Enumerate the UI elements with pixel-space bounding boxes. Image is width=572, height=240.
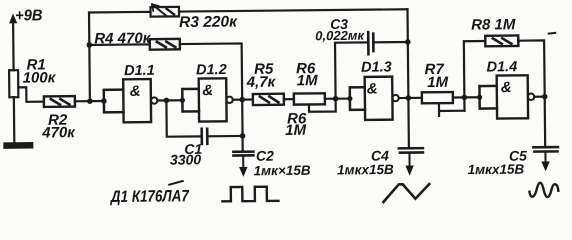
svg-text:&: & xyxy=(130,83,141,100)
wire R6 to D1.3 input xyxy=(325,97,350,99)
resistor R1 xyxy=(9,70,18,97)
node junction D1.1 input xyxy=(101,98,107,104)
node junction main line / feedback vertical xyxy=(87,98,93,104)
waveform square wave xyxy=(222,187,278,202)
node junction D1.2 output xyxy=(239,97,245,103)
resistor R8 xyxy=(485,35,518,46)
svg-text:D1.4: D1.4 xyxy=(487,59,518,75)
wire C5 vertical xyxy=(544,97,547,147)
label accent stroke over A7 xyxy=(169,181,183,185)
node junction R4 branch xyxy=(87,42,93,48)
svg-text:D1.3: D1.3 xyxy=(361,59,392,75)
ground xyxy=(3,142,33,149)
capacitor C4 xyxy=(399,148,423,176)
wire R4 left xyxy=(89,43,149,46)
wire C3 left leg xyxy=(335,42,368,98)
wire R5 to R6 xyxy=(284,98,294,100)
capacitor C5 xyxy=(533,147,558,171)
svg-text:С2: С2 xyxy=(256,148,274,164)
wire feedback vertical from top line down to main line xyxy=(88,12,91,101)
resistor R3 (variable) xyxy=(150,4,179,17)
svg-text:D1.1: D1.1 xyxy=(124,63,155,79)
wire D1.1 output to D1.2 input xyxy=(157,99,182,101)
wire R7 wiper stub xyxy=(438,111,440,116)
wire R7 wiper tap xyxy=(439,103,465,111)
wire C2 vertical xyxy=(241,100,244,151)
svg-text:&: & xyxy=(367,80,378,97)
wire C3 right leg xyxy=(373,41,407,44)
svg-text:R8 1М: R8 1М xyxy=(471,16,516,33)
wire input bracket D1.1 xyxy=(104,90,124,113)
wire R1 bottom to ground xyxy=(13,97,16,142)
waveform sine wave xyxy=(529,182,558,197)
resistor R2 xyxy=(44,96,75,107)
wire input bracket D1.4 xyxy=(479,86,497,109)
svg-text:&: & xyxy=(202,82,213,99)
svg-text:3300: 3300 xyxy=(170,151,202,167)
wire input bracket D1.2 xyxy=(182,89,199,112)
svg-text:4,7к: 4,7к xyxy=(246,74,277,91)
wire D1.4 output xyxy=(534,96,544,98)
node +9V supply arrow xyxy=(9,13,18,70)
wire D1.3 output to R7 xyxy=(399,97,422,99)
label minus mark xyxy=(549,32,556,35)
wire R7 to D1.4 input xyxy=(453,96,480,98)
svg-text:1М: 1М xyxy=(297,72,319,89)
svg-text:D1.2: D1.2 xyxy=(196,62,227,78)
node junction D1.3 output xyxy=(406,95,412,101)
wire D1.2 output to R5 xyxy=(233,98,253,100)
wire vertical top line to C4 xyxy=(407,9,408,147)
wire input bracket D1.3 xyxy=(350,87,365,110)
wire top line to R3 xyxy=(89,11,150,14)
NAND gate D1.3 xyxy=(365,77,399,120)
svg-text:100к: 100к xyxy=(23,69,57,86)
wire R8 left leg xyxy=(464,41,486,111)
svg-text:1мкх15В: 1мкх15В xyxy=(337,162,394,178)
wire R8 right leg xyxy=(518,40,544,96)
wire C1 right leg xyxy=(207,135,242,138)
svg-text:1М: 1М xyxy=(285,122,307,139)
capacitor C1 xyxy=(202,129,208,144)
svg-text:0,022мк: 0,022мк xyxy=(315,28,365,44)
resistor R4 xyxy=(150,39,180,50)
resistor R5 xyxy=(253,94,284,105)
svg-text:R4 470к: R4 470к xyxy=(94,30,152,48)
wire R6 wiper tap xyxy=(309,99,336,112)
node junction D1.4 input xyxy=(477,95,482,100)
NAND gate D1.4 xyxy=(497,75,535,118)
wire R3 to top-right corner xyxy=(179,9,407,11)
wire C1 left leg xyxy=(166,100,201,137)
node junction D1.4 output xyxy=(542,94,548,100)
svg-text:Д1 К176ЛА7: Д1 К176ЛА7 xyxy=(109,187,189,206)
wire R1 wiper tap to R2 xyxy=(18,87,44,102)
NAND gate D1.2 xyxy=(199,78,233,121)
wire R4 right to D1.2 output node xyxy=(180,43,242,100)
resistor R6 xyxy=(294,93,325,104)
node junction C1 branch xyxy=(164,98,170,104)
svg-text:1мк×15В: 1мк×15В xyxy=(254,163,311,179)
node junction C3 right xyxy=(405,39,411,45)
node junction D1.2 input xyxy=(180,98,185,103)
wire R2 to D1.1 input xyxy=(75,100,104,102)
node junction R8 left xyxy=(462,95,468,101)
NAND gate D1.1 xyxy=(123,79,157,122)
svg-text:1мкх15В: 1мкх15В xyxy=(468,162,525,178)
node junction C1/C2 xyxy=(240,133,246,139)
svg-text:&: & xyxy=(501,79,512,96)
svg-text:+9В: +9В xyxy=(15,7,43,24)
svg-text:1М: 1М xyxy=(427,74,449,91)
node junction D1.3 input xyxy=(347,96,352,101)
svg-text:R3 220к: R3 220к xyxy=(179,13,238,31)
capacitor C3 xyxy=(368,32,373,54)
resistor R7 xyxy=(422,92,453,103)
capacitor C2 xyxy=(233,152,253,177)
node junction R6/C3 xyxy=(333,96,339,102)
waveform triangle wave xyxy=(383,184,429,202)
svg-text:470к: 470к xyxy=(41,124,76,141)
